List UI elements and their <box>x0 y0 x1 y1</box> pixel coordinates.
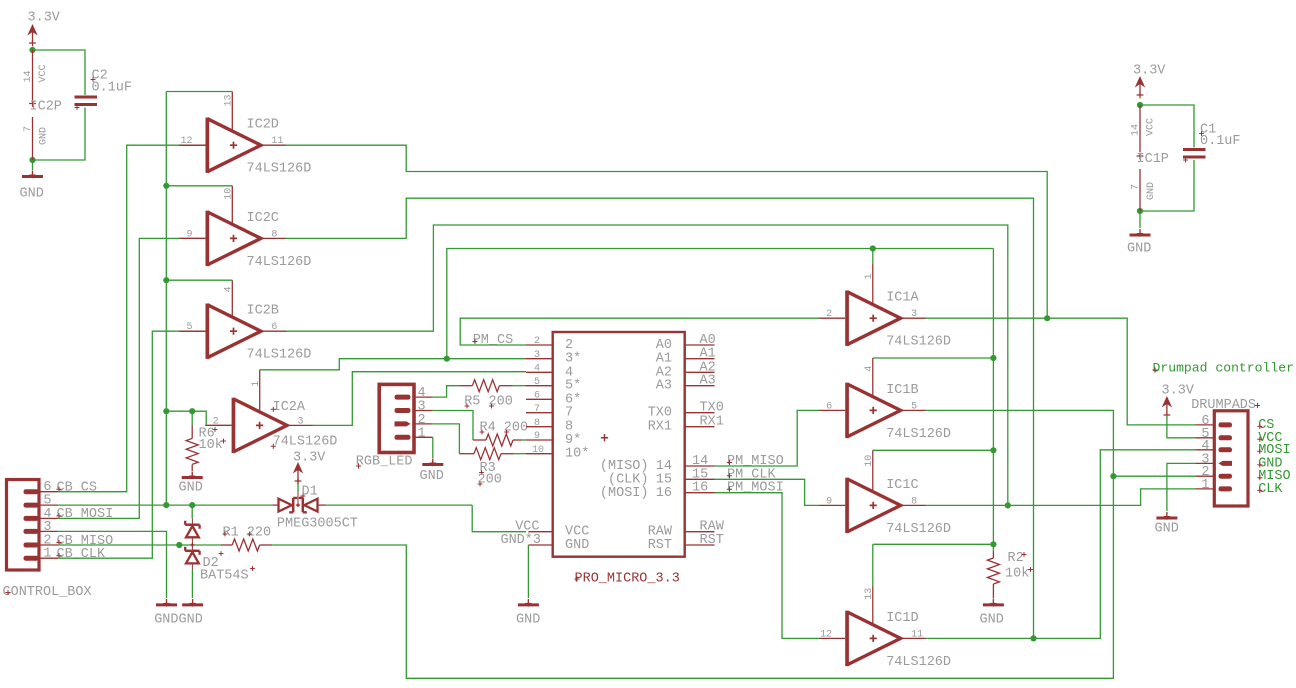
svg-text:IC1D: IC1D <box>886 611 918 626</box>
svg-text:3.3V: 3.3V <box>293 451 326 466</box>
svg-text:IC2D: IC2D <box>247 118 279 133</box>
svg-text:CLK: CLK <box>1258 482 1283 497</box>
svg-text:10k: 10k <box>1005 567 1029 582</box>
svg-text:IC2B: IC2B <box>247 304 279 319</box>
svg-text:0.1uF: 0.1uF <box>92 81 133 96</box>
svg-text:1: 1 <box>418 426 426 441</box>
svg-text:GND: GND <box>1127 242 1151 257</box>
svg-text:3.3V: 3.3V <box>1133 64 1166 79</box>
svg-text:8: 8 <box>271 229 277 240</box>
svg-text:7: 7 <box>565 406 573 421</box>
svg-text:74LS126D: 74LS126D <box>886 335 951 350</box>
svg-text:11: 11 <box>271 136 283 147</box>
svg-text:7: 7 <box>1131 184 1142 190</box>
svg-text:8: 8 <box>534 418 540 429</box>
svg-text:A3: A3 <box>656 379 672 394</box>
svg-text:PRO_MICRO_3.3: PRO_MICRO_3.3 <box>575 572 680 587</box>
svg-text:GND: GND <box>516 613 540 628</box>
svg-text:3.3V: 3.3V <box>1162 384 1195 399</box>
svg-text:GND: GND <box>980 613 1004 628</box>
svg-text:Drumpad controller: Drumpad controller <box>1153 361 1294 376</box>
svg-text:R1 220: R1 220 <box>223 526 272 541</box>
svg-text:IC1P: IC1P <box>1137 152 1169 167</box>
svg-text:GND: GND <box>420 469 444 484</box>
svg-text:5: 5 <box>911 401 917 412</box>
svg-text:10*: 10* <box>565 447 589 462</box>
svg-text:IC1C: IC1C <box>886 478 918 493</box>
svg-text:12: 12 <box>820 629 832 640</box>
svg-text:8: 8 <box>911 496 917 507</box>
svg-text:PM_MOSI: PM_MOSI <box>727 481 784 496</box>
svg-text:74LS126D: 74LS126D <box>273 435 338 450</box>
svg-text:RX1: RX1 <box>648 420 672 435</box>
svg-text:16: 16 <box>692 481 708 496</box>
svg-text:9: 9 <box>534 431 540 442</box>
svg-text:GND: GND <box>39 127 50 145</box>
svg-text:9: 9 <box>826 496 832 507</box>
svg-text:GND: GND <box>1155 522 1179 537</box>
svg-text:6: 6 <box>534 391 540 402</box>
svg-text:A3: A3 <box>700 374 716 389</box>
svg-text:R4 200: R4 200 <box>480 421 529 436</box>
svg-text:(MOSI): (MOSI) <box>600 486 649 501</box>
svg-text:GND: GND <box>565 538 589 553</box>
svg-text:1: 1 <box>1201 478 1209 493</box>
svg-text:TX0: TX0 <box>700 401 724 416</box>
svg-text:IC1B: IC1B <box>886 383 918 398</box>
svg-text:14: 14 <box>23 70 34 82</box>
svg-text:4: 4 <box>534 364 540 375</box>
svg-text:10k: 10k <box>199 438 223 453</box>
svg-text:R2: R2 <box>1008 551 1024 566</box>
svg-text:16: 16 <box>656 486 672 501</box>
svg-text:13: 13 <box>224 94 235 106</box>
svg-text:5: 5 <box>534 377 540 388</box>
svg-text:PM_CS: PM_CS <box>473 333 514 348</box>
svg-text:CB_MOSI: CB_MOSI <box>57 507 114 522</box>
svg-text:2: 2 <box>826 309 832 320</box>
svg-text:R5 200: R5 200 <box>464 395 513 410</box>
svg-text:GND: GND <box>179 481 203 496</box>
svg-text:74LS126D: 74LS126D <box>886 655 951 670</box>
svg-text:3.3V: 3.3V <box>28 11 61 26</box>
svg-text:3: 3 <box>298 416 304 427</box>
svg-text:3: 3 <box>534 350 540 361</box>
svg-text:200: 200 <box>478 473 502 488</box>
svg-text:10: 10 <box>224 188 235 200</box>
svg-text:11: 11 <box>911 629 923 640</box>
svg-text:RST: RST <box>648 538 672 553</box>
svg-text:14: 14 <box>1131 124 1142 136</box>
svg-text:VCC: VCC <box>1146 118 1157 136</box>
svg-text:7: 7 <box>23 126 34 132</box>
svg-text:BAT54S: BAT54S <box>200 569 249 584</box>
svg-text:74LS126D: 74LS126D <box>247 348 312 363</box>
svg-text:3: 3 <box>911 309 917 320</box>
svg-text:IC2C: IC2C <box>247 211 279 226</box>
svg-text:DRUMPADS: DRUMPADS <box>1191 398 1256 413</box>
svg-text:RST: RST <box>700 533 724 548</box>
svg-text:VCC: VCC <box>38 64 49 82</box>
svg-text:GNDGND: GNDGND <box>154 613 203 628</box>
svg-text:D1: D1 <box>302 485 318 500</box>
svg-text:RX1: RX1 <box>700 415 724 430</box>
svg-text:1: 1 <box>43 547 51 562</box>
svg-text:GND: GND <box>20 187 44 202</box>
svg-text:CONTROL_BOX: CONTROL_BOX <box>3 585 92 600</box>
svg-text:74LS126D: 74LS126D <box>247 162 312 177</box>
svg-text:TX0: TX0 <box>648 406 672 421</box>
svg-text:PMEG3005CT: PMEG3005CT <box>277 517 358 532</box>
svg-text:0.1uF: 0.1uF <box>1200 134 1241 149</box>
svg-text:2: 2 <box>534 336 540 347</box>
svg-text:4: 4 <box>224 286 235 292</box>
svg-text:CB_CS: CB_CS <box>57 481 98 496</box>
svg-text:RGB_LED: RGB_LED <box>356 455 413 470</box>
svg-text:GND: GND <box>1146 182 1157 200</box>
svg-text:74LS126D: 74LS126D <box>886 427 951 442</box>
svg-text:7: 7 <box>534 404 540 415</box>
svg-text:10: 10 <box>532 445 544 456</box>
svg-text:IC1A: IC1A <box>886 291 919 306</box>
svg-text:74LS126D: 74LS126D <box>886 522 951 537</box>
svg-text:GND*3: GND*3 <box>500 533 541 548</box>
svg-text:6: 6 <box>826 401 832 412</box>
svg-text:74LS126D: 74LS126D <box>247 255 312 270</box>
svg-text:IC2A: IC2A <box>273 400 306 415</box>
svg-text:IC2P: IC2P <box>30 100 62 115</box>
svg-text:6: 6 <box>271 322 277 333</box>
svg-text:CB_CLK: CB_CLK <box>57 547 107 562</box>
